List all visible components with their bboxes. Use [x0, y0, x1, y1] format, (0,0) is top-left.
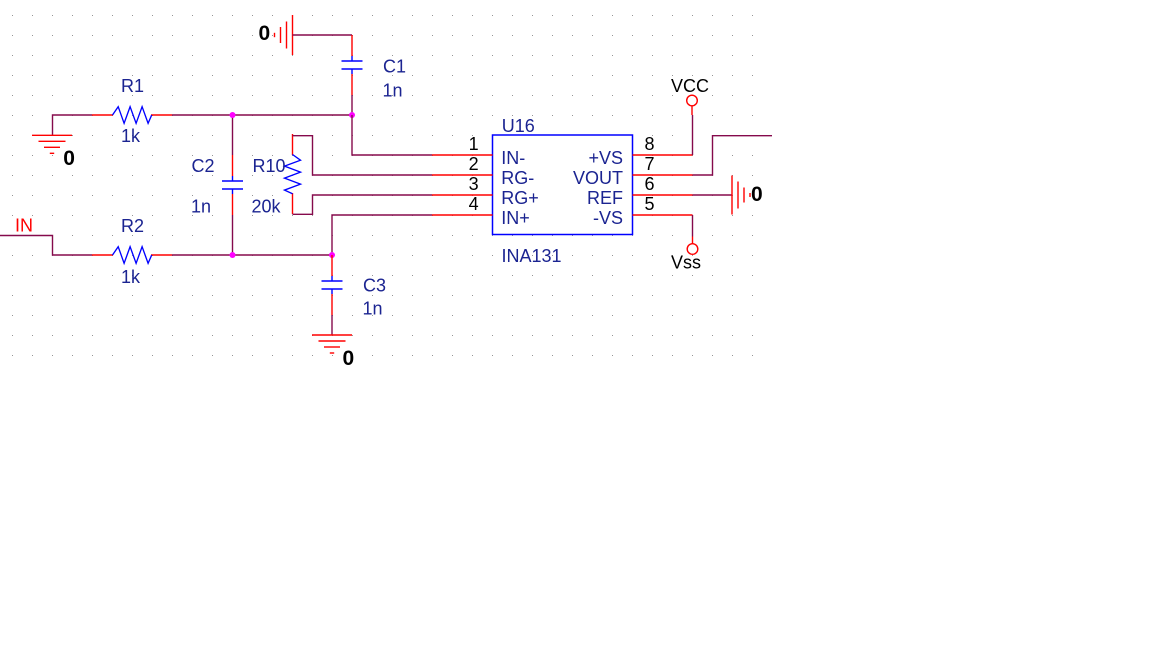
wire R10 top loop to pin 2	[293, 136, 433, 175]
capacitor C2	[232, 155, 234, 176]
svg-text:IN+: IN+	[501, 208, 530, 228]
pin 5 lead	[633, 214, 693, 216]
svg-text:2: 2	[469, 154, 479, 174]
pin 3 lead	[432, 194, 493, 196]
wire to pin 1 IN-	[352, 115, 432, 155]
svg-text:INA131: INA131	[502, 246, 562, 266]
svg-text:+VS: +VS	[588, 148, 623, 168]
power symbol VCC	[687, 95, 698, 106]
svg-text:C1: C1	[383, 57, 406, 77]
ground 0 at C3	[312, 334, 352, 336]
wire REF to ground	[693, 194, 733, 196]
svg-text:R1: R1	[121, 76, 144, 96]
wire C1 bottom	[351, 95, 353, 115]
svg-text:U16: U16	[502, 116, 535, 136]
svg-text:REF: REF	[587, 188, 623, 208]
junction at C2 bottom	[230, 252, 236, 258]
svg-text:VCC: VCC	[671, 76, 709, 96]
wire C2 top	[232, 115, 234, 155]
svg-text:1n: 1n	[383, 81, 403, 101]
svg-text:1k: 1k	[121, 267, 141, 287]
svg-text:R2: R2	[121, 216, 144, 236]
grid dots	[11, 14, 755, 357]
svg-text:0: 0	[259, 22, 271, 45]
svg-text:8: 8	[645, 134, 655, 154]
pin 6 lead	[633, 194, 693, 196]
wire R1 left to ground	[53, 115, 93, 135]
svg-text:C3: C3	[363, 276, 386, 296]
svg-text:-VS: -VS	[593, 208, 623, 228]
svg-text:R10: R10	[253, 156, 286, 176]
svg-text:1: 1	[469, 134, 479, 154]
svg-text:RG+: RG+	[501, 188, 539, 208]
svg-text:Vss: Vss	[671, 253, 701, 273]
wire pin 8 to VCC	[692, 115, 694, 155]
wire R2 output y=255	[172, 254, 332, 256]
svg-text:4: 4	[469, 194, 479, 214]
op-amp U16 body	[493, 135, 633, 235]
junction at C3 top	[329, 252, 335, 258]
svg-text:20k: 20k	[252, 197, 282, 217]
wire VOUT	[693, 136, 773, 175]
resistor R1	[92, 114, 113, 116]
svg-text:7: 7	[645, 154, 655, 174]
wire R10 bottom loop to pin 3	[293, 195, 433, 214]
power symbol Vss	[692, 237, 694, 244]
svg-text:IN: IN	[15, 216, 33, 236]
wire pin 5 to Vss	[692, 215, 694, 237]
svg-text:1n: 1n	[363, 299, 383, 319]
svg-text:5: 5	[645, 194, 655, 214]
ground 0 at REF	[731, 176, 733, 215]
pin 7 lead	[633, 174, 693, 176]
capacitor C3	[331, 255, 333, 276]
pin 4 lead	[432, 214, 493, 216]
svg-text:1k: 1k	[121, 126, 141, 146]
svg-text:VOUT: VOUT	[573, 168, 623, 188]
svg-text:1n: 1n	[191, 197, 211, 217]
svg-text:0: 0	[751, 183, 763, 206]
svg-text:0: 0	[63, 147, 75, 170]
pin 2 lead	[432, 174, 493, 176]
resistor R10	[292, 134, 294, 155]
wire C3 bottom to ground	[331, 315, 333, 335]
svg-text:3: 3	[469, 174, 479, 194]
wire C2 bottom	[232, 215, 234, 255]
junction at C1 bottom	[349, 112, 355, 118]
wire to pin 4 IN+	[332, 215, 432, 255]
wire IN entry	[0, 236, 92, 256]
svg-text:RG-: RG-	[501, 168, 534, 188]
junction at C2 top	[230, 112, 236, 118]
pin 8 lead	[633, 154, 693, 156]
svg-text:IN-: IN-	[501, 148, 525, 168]
svg-text:6: 6	[645, 174, 655, 194]
pin 1 lead	[432, 154, 493, 156]
ground 0 at R1	[32, 134, 72, 136]
svg-text:C2: C2	[192, 156, 215, 176]
svg-text:0: 0	[343, 347, 355, 370]
ground 0 at C1	[292, 15, 294, 55]
wire ground to C1 top	[293, 34, 353, 36]
capacitor C1	[351, 35, 353, 56]
wire R1 output y=115	[172, 114, 352, 116]
resistor R2	[92, 254, 113, 256]
